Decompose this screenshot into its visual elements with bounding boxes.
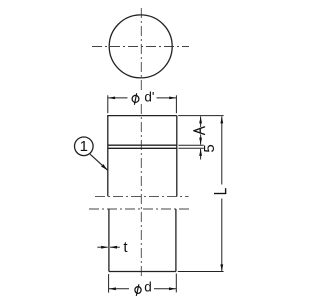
svg-text:d': d' [144,90,154,105]
svg-text:1: 1 [80,138,88,155]
svg-text:d: d [144,279,152,294]
svg-text:5: 5 [201,144,218,152]
